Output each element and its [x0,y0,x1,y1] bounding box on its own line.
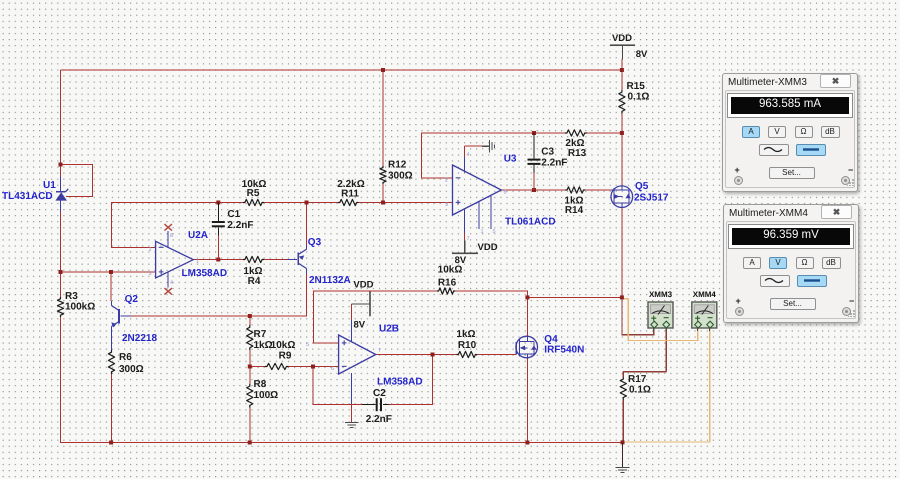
svg-text:−: − [707,313,713,324]
resistor R6 300 [108,350,114,374]
wire XMM3 plus lead [622,297,654,334]
wire U2A feedback from node A [112,203,244,248]
svg-text:8V: 8V [455,255,467,266]
node ground rail [621,440,625,444]
svg-text:Q2: Q2 [125,294,139,305]
svg-text:Q5: Q5 [635,181,649,192]
node left rail / U2A+ [59,270,63,274]
svg-text:0.1Ω: 0.1Ω [629,385,651,396]
shunt reference U1 TL431ACD [60,176,62,192]
svg-text:10kΩ: 10kΩ [438,265,463,276]
resistor R9 10k [265,363,289,369]
svg-text:LM358AD: LM358AD [377,376,423,387]
wire R16 to Q4 drain [455,291,527,336]
node Q4 source [525,441,529,445]
wire Q3 collector down and left to Q2 base [121,273,307,316]
wire drain node to Q5 drain node [527,296,622,298]
svg-text:2.2nF: 2.2nF [227,220,253,231]
svg-text:XMM3: XMM3 [649,290,673,299]
multimeter icon XMM3 [653,328,655,331]
svg-text:2N1132A: 2N1132A [309,275,351,286]
svg-text:TL061ACD: TL061ACD [505,217,556,228]
svg-text:8: 8 [170,233,173,239]
wire R4 to Q3 base [264,259,297,261]
VDD power tap U3 [452,253,478,255]
ground at U3 top [482,145,490,147]
wire Q4 source to bottom rail [526,358,528,443]
svg-text:3: 3 [149,271,152,277]
svg-text:−: − [455,173,461,184]
resistor R7 1k [247,325,253,350]
node U3 output [532,188,536,192]
wire U1 reference loop [61,165,93,197]
wire U2A plus input from left rail [61,271,156,273]
svg-text:5: 5 [493,229,496,235]
wire R8 to bottom rail [249,408,251,443]
ground below U2B [345,422,359,424]
svg-text:300Ω: 300Ω [119,364,144,375]
transistor Q5 2SJ517 pmos [611,186,633,208]
wire Q2 collector riser [110,272,112,301]
resistor R8 100 [247,384,253,408]
svg-text:8V: 8V [636,49,648,60]
svg-text:U2B: U2B [379,324,399,335]
wire R12 top lead from VDD rail [382,70,384,166]
svg-text:3: 3 [445,202,448,208]
svg-text:R15: R15 [627,81,646,92]
svg-text:R3: R3 [65,291,78,302]
svg-text:0.1Ω: 0.1Ω [628,92,650,103]
svg-text:R12: R12 [388,160,407,171]
wire C2 to feedback node [389,355,433,405]
wire U2B output to R10 [376,354,457,356]
svg-text:100Ω: 100Ω [254,390,279,401]
svg-text:2.2nF: 2.2nF [366,414,392,425]
node U2B inverting [311,365,315,369]
svg-text:R5: R5 [247,188,260,199]
wire XMM3 minus lead to R17 [623,328,666,377]
svg-text:2N2218: 2N2218 [122,333,157,344]
svg-text:100kΩ: 100kΩ [65,302,95,313]
pin numbers [149,152,507,372]
svg-text:4: 4 [170,280,173,286]
VDD power tap U2B [369,291,371,316]
svg-text:10kΩ: 10kΩ [271,340,296,351]
wire R13 node to Q5 source [621,133,623,186]
wire top rail VDD [61,69,623,71]
ground main rail [622,442,624,467]
no-connect X top U2A [164,224,172,231]
capacitor C1 2.2nF [217,203,219,222]
resistor R3 100k [57,297,63,317]
resistor R17 0.1 [620,377,626,400]
wire U2B inverting branch to C2 [313,367,362,405]
wire Q5 drain to drain node [621,208,623,297]
svg-text:Q3: Q3 [308,237,322,248]
svg-text:R7: R7 [254,329,267,340]
svg-text:2: 2 [149,247,152,253]
node R7/R8/R9 [248,365,252,369]
svg-text:TL431ACD: TL431ACD [2,191,53,202]
capacitor C2 2.2nF [362,404,376,406]
node R8 bottom [248,441,252,445]
wire XMM4 plus lead [623,299,698,341]
svg-text:6: 6 [331,366,334,372]
svg-text:R11: R11 [341,189,359,200]
svg-text:−: − [663,313,669,324]
node Q4 drain [525,295,529,299]
svg-text:R10: R10 [458,340,477,351]
op-amp U2A LM358AD [156,241,194,278]
node R7 top [248,314,252,318]
svg-text:U2A: U2A [188,230,208,241]
resistor R13 2k [565,130,587,136]
wire left rail [60,70,62,177]
wire R5 to R11 segment with Q3 emitter node [264,202,338,204]
no-connect X bottom U2A [164,288,172,295]
multimeter dialog XMM4 [723,204,859,323]
svg-text:+: + [158,267,164,278]
svg-text:C3: C3 [541,147,554,158]
multimeter dialog XMM3 [722,73,858,192]
svg-text:R9: R9 [279,351,292,362]
wire U2B plus input sense line [314,291,438,343]
svg-text:2.2nF: 2.2nF [541,158,567,169]
node VDD rail [620,68,624,72]
resistor R4 1k [243,256,264,262]
svg-text:R16: R16 [438,278,457,289]
node R12 bottom [381,201,385,205]
node R12 top [381,68,385,72]
wire R13 to R15 node [587,132,622,134]
svg-text:+: + [455,198,461,209]
transistor Q2 2N2218 npn [118,309,120,324]
wire VDD to R15 [621,59,623,90]
wire R11 to U3 noninverting input [359,202,453,204]
resistor R16 10k [437,288,455,294]
svg-text:LM358AD: LM358AD [182,268,228,279]
resistor R10 1k [457,351,478,357]
svg-text:XMM4: XMM4 [693,290,717,299]
svg-text:U1: U1 [43,180,56,191]
capacitor C3 2.2nF [533,133,535,159]
svg-text:C2: C2 [373,388,386,399]
wire U2A output to R4 [193,259,243,261]
svg-text:1: 1 [481,229,484,235]
svg-text:1: 1 [196,259,199,265]
svg-text:6: 6 [504,190,507,196]
svg-text:300Ω: 300Ω [388,171,413,182]
svg-text:8V: 8V [354,320,366,331]
svg-text:−: − [158,243,164,254]
svg-text:R8: R8 [254,379,267,390]
multimeter icon XMM4 [697,328,699,331]
wire R10 to Q4 gate [477,354,516,356]
svg-text:5: 5 [306,342,309,348]
transistor Q3 2N1132A pnp [297,253,299,266]
svg-text:R17: R17 [628,374,647,385]
op-amp U2B LM358AD [339,335,376,374]
node U2B output/C2 [431,353,435,357]
resistor R11 2.2k [338,199,359,205]
resistor R5 10k [243,199,264,205]
op-amp U3 TL061ACD [453,165,502,215]
node R15/R13 [620,131,624,135]
svg-text:1kΩ: 1kΩ [254,340,273,351]
wire R7 to R9 node [249,350,251,384]
node R6 bottom [109,441,113,445]
wire XMM4 minus lead to ground rail [623,328,710,442]
node U1 ref [59,163,63,167]
svg-text:R14: R14 [565,205,584,216]
wire R14 to Q5 gate [585,189,611,191]
svg-text:C1: C1 [227,209,240,220]
wire R7 chain top [249,316,251,325]
svg-text:7: 7 [378,348,381,354]
svg-text:U3: U3 [504,153,517,164]
wire Q3 emitter riser [306,203,308,247]
wire U3 power pin to VDD tap [464,232,466,253]
node U2A output [216,258,220,262]
wire R17 to ground node [622,400,624,443]
wire R9 to U2B inverting input [289,366,339,368]
svg-text:−: − [341,362,347,373]
resistor R12 300 [380,166,386,184]
resistor R15 0.1 [619,90,625,114]
svg-text:R4: R4 [248,276,261,287]
wire R9 left lead [250,366,265,368]
svg-text:VDD: VDD [612,33,632,44]
svg-text:1kΩ: 1kΩ [456,329,475,340]
wire R12 bottom lead [382,184,384,203]
wire R15 to R13 node [621,114,623,134]
wire R6 to bottom rail [111,374,113,443]
svg-text:VDD: VDD [478,242,498,253]
transistor Q4 IRF540N nmos [516,336,538,358]
node C3 top [532,131,536,135]
node C1/R5 [216,201,220,205]
svg-text:7: 7 [467,236,470,242]
svg-text:R13: R13 [568,148,587,159]
resistor R14 1k [565,187,585,193]
wire U3 feedback loop [421,133,565,178]
svg-text:2: 2 [445,178,448,184]
svg-text:+: + [341,338,347,349]
svg-text:IRF540N: IRF540N [544,344,584,355]
svg-text:VDD: VDD [353,280,373,291]
svg-text:2SJ517: 2SJ517 [634,193,669,204]
node Q2 collector [109,270,113,274]
wire U2B power pin to VDD tap [350,304,352,320]
node Q3 emitter [305,201,309,205]
wire U3 output node [501,189,565,191]
wire U2B ground pin [351,402,353,422]
VDD power tap top [610,44,635,46]
wire U3 ground pin [465,146,483,158]
wire bottom ground rail [60,442,623,444]
svg-text:4: 4 [467,152,470,158]
node Q5 drain [620,295,624,299]
svg-text:R6: R6 [119,352,132,363]
